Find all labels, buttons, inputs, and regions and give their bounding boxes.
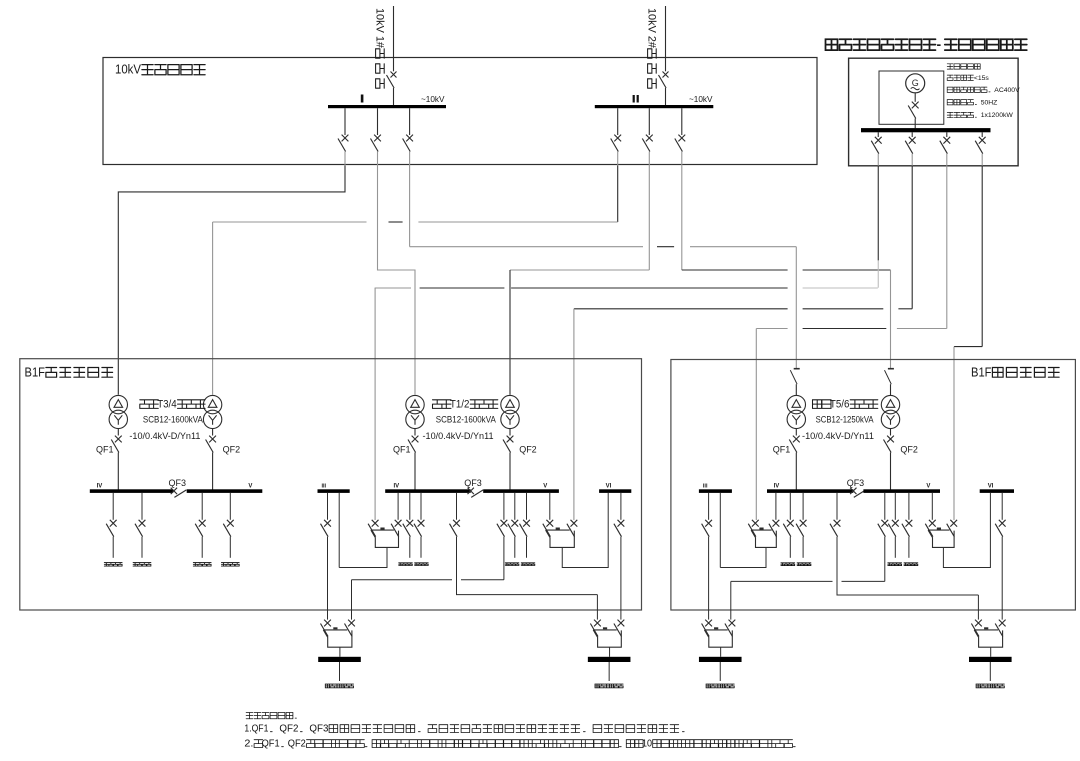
svg-text:III: III bbox=[322, 484, 327, 490]
svg-text:B1F: B1F bbox=[971, 365, 992, 379]
wire: T5/6 load feeder at x=895.3 bbox=[894, 493, 896, 520]
wire: busbar II feeder drop at x=617.7 bbox=[617, 108, 619, 135]
wire: generator feeder 1 vertical bbox=[877, 166, 879, 261]
wire: bus III feeder to fire ATS (left input) bbox=[327, 493, 329, 520]
wire: Crown left ATS output to bus III bbox=[339, 547, 387, 567]
wire: bus IV long feeder to right fire ATS bbox=[836, 493, 838, 520]
enclosure: generator cell bbox=[879, 71, 944, 124]
wire: T1/2 load feeder at x=514.8 bbox=[514, 493, 516, 520]
transformer T2 (Crown T1/2 right) bbox=[501, 395, 519, 413]
svg-text:10kV 1#: 10kV 1# bbox=[373, 8, 385, 49]
wire: bus V long feeder to left fire ATS bbox=[884, 493, 886, 520]
disconnect above T5 bbox=[794, 368, 800, 370]
transformer T6 (Zhixuan right) bbox=[881, 395, 899, 413]
wire: T3/4 load feeder at x=113.2 bbox=[112, 493, 114, 520]
enclosure: 10kV high-voltage distribution room bbox=[103, 58, 817, 165]
wire: T3 to QF1 breaker bbox=[117, 429, 119, 436]
busbar: fire load bus (Crown right) bbox=[588, 657, 631, 662]
ATS (fire load, Crown left) bbox=[324, 620, 331, 627]
svg-text:QF2: QF2 bbox=[519, 445, 537, 455]
busbar: generator 0.4kV bus bbox=[861, 128, 991, 132]
enclosure: B1F Crown substation bbox=[20, 359, 642, 610]
breaker on generator feeder bbox=[875, 137, 882, 144]
busbar: fire load bus (Crown left) bbox=[318, 657, 361, 662]
breaker on load feeder bbox=[199, 520, 206, 527]
wire: route into Crown T4 (QF2) bbox=[212, 222, 214, 395]
wire: bus IV feeder into ATS right input bbox=[775, 493, 777, 520]
wire: route into Zhixuan T5 (QF1) vertical bbox=[795, 247, 797, 369]
wire: busbar II feeder drop at x=681.8 bbox=[681, 108, 683, 135]
breaker on load feeder bbox=[800, 520, 807, 527]
svg-text:10kV 2#: 10kV 2# bbox=[645, 8, 657, 49]
breaker on bus VI feeder bbox=[618, 520, 625, 527]
svg-text:V: V bbox=[926, 484, 930, 490]
label: hotel fire load bbox=[595, 684, 623, 688]
svg-text:1x1200kW: 1x1200kW bbox=[981, 112, 1014, 119]
breaker on bus I feeder bbox=[342, 135, 349, 142]
wire: QF1 to bus IV mid bbox=[414, 453, 416, 490]
wire: generator breaker to bus bbox=[914, 119, 916, 129]
breaker on load feeder bbox=[139, 520, 146, 527]
label: hotel fire load bbox=[976, 684, 1004, 688]
wire: route into Zhixuan T6 (QF2) vertical bbox=[890, 270, 892, 369]
label: secondary loads pair (Zhixuan bus V) bbox=[888, 563, 902, 566]
wire: generator bus feeder at x=946.8 bbox=[946, 132, 948, 137]
busbar VI (Crown) bbox=[599, 489, 631, 493]
breaker on load feeder bbox=[906, 520, 913, 527]
wire: route bus I feeder 1 to Crown T3 (QF1) bbox=[118, 166, 345, 395]
wire: bus III riser from ATS output bbox=[719, 493, 721, 568]
label: hotel fire load bbox=[706, 684, 734, 688]
wire: route into Crown T2 (QF2) vertical bbox=[509, 270, 511, 395]
wire: T5/6 load feeder at x=803.1 bbox=[802, 493, 804, 520]
wire: T5/6 load feeder at x=908.9 bbox=[908, 493, 910, 520]
wire: Crown right ATS output to bus VI bbox=[562, 493, 608, 568]
wire: generator feeder 2 vertical bbox=[911, 166, 913, 309]
svg-text:T1/2: T1/2 bbox=[450, 399, 470, 411]
breaker on bus III feeder bbox=[324, 520, 331, 527]
breaker on load feeder bbox=[406, 520, 413, 527]
svg-text:AC400V: AC400V bbox=[994, 87, 1020, 94]
wire: T3/4 load feeder at x=202.2 bbox=[201, 493, 203, 520]
label: section II mark bbox=[633, 95, 635, 103]
breaker on load feeder bbox=[418, 520, 425, 527]
breaker QF2 (T4) bbox=[209, 436, 216, 443]
wire: generator feeder 1 horizontal y=288 to Crown left ATS bbox=[375, 287, 411, 289]
generator G1 symbol bbox=[906, 74, 925, 93]
svg-text:III: III bbox=[703, 484, 708, 490]
breaker QF2 (T2) bbox=[507, 436, 514, 443]
wire: generator bus feeder at x=878.25 bbox=[877, 132, 879, 137]
breaker QF1 (T3) bbox=[115, 436, 122, 443]
wire: T4 to QF2 breaker bbox=[212, 429, 214, 436]
breaker on load feeder bbox=[787, 520, 794, 527]
svg-text:10: 10 bbox=[642, 739, 652, 750]
svg-text:QF3: QF3 bbox=[847, 478, 865, 488]
svg-text:-: - bbox=[937, 36, 942, 52]
wire: QF1 to bus IV bbox=[795, 453, 797, 490]
label: generator data block bbox=[947, 64, 980, 69]
breaker on bus IV long feeder bbox=[453, 520, 460, 527]
breaker QF2 (T6) bbox=[887, 436, 894, 443]
svg-text:QF3: QF3 bbox=[309, 724, 328, 735]
label: secondary load bbox=[104, 563, 122, 567]
wire: generator feeder 3 horizontal y=328 to Zhixuan left ATS bbox=[756, 328, 787, 330]
svg-text:SCB12-1600kVA: SCB12-1600kVA bbox=[143, 414, 204, 425]
svg-text:QF2: QF2 bbox=[900, 445, 918, 455]
svg-text:T5/6: T5/6 bbox=[830, 399, 850, 411]
busbar I (10kV section I) bbox=[328, 105, 446, 108]
svg-text:V: V bbox=[543, 484, 547, 490]
wire: generator feeder 4 horizontal y=347 bbox=[954, 346, 982, 348]
wire: busbar I feeder drop at x=345 bbox=[344, 108, 346, 135]
wire: route bus I feeder 2 to Crown T1 (QF1) bbox=[378, 166, 416, 395]
label: secondary loads pair (bus IV mid) bbox=[399, 563, 413, 566]
busbar V (Crown T1/2 right section) bbox=[483, 489, 559, 493]
wire: T1/2 load feeder at x=421 bbox=[420, 493, 422, 520]
svg-text:QF3: QF3 bbox=[169, 478, 187, 488]
wire: bus V feeder into right ATS left input bbox=[549, 493, 551, 520]
wire: route bus II feeder 3 vertical bbox=[681, 166, 683, 271]
ATS (fire load, Crown right) bbox=[594, 620, 601, 627]
breaker on bus II feeder bbox=[614, 135, 621, 142]
bus tie QF3 (T3/4) bbox=[171, 488, 177, 494]
wire: bus IV feeder into ATS right input bbox=[397, 493, 399, 520]
wire: bus VI feeder to right fire ATS bbox=[620, 493, 622, 520]
enclosure: diesel generator box bbox=[849, 58, 1019, 166]
svg-text:QF1: QF1 bbox=[96, 445, 114, 455]
breaker on generator feeder bbox=[979, 137, 986, 144]
label: secondary load bbox=[133, 563, 151, 567]
wire: incoming feeder line 1 bbox=[393, 6, 395, 71]
breaker on bus V long feeder bbox=[881, 520, 888, 527]
busbar IV (Crown T1/2 left section) bbox=[385, 489, 471, 493]
ATS (Crown right, feeds bus VI) bbox=[546, 520, 553, 527]
svg-text:50HZ: 50HZ bbox=[981, 99, 998, 106]
ATS (Crown left, feeds bus III) bbox=[372, 520, 379, 527]
wire: Zhixuan right ATS output to bus VI bbox=[943, 493, 990, 568]
busbar II (10kV section II) bbox=[595, 105, 714, 108]
busbar: fire load bus (Zhixuan left) bbox=[699, 657, 742, 662]
svg-text:QF1: QF1 bbox=[773, 445, 791, 455]
wire: standby feed into Zhixuan right ATS bbox=[953, 347, 955, 520]
breaker on bus VI feeder bbox=[999, 520, 1006, 527]
breaker QF1 (T5) bbox=[793, 436, 800, 443]
wire: QF2 to bus V mid bbox=[509, 453, 511, 490]
svg-text:VI: VI bbox=[606, 484, 612, 490]
breaker on bus II feeder bbox=[678, 135, 685, 142]
wire: bus III riser from ATS output bbox=[338, 493, 340, 568]
wire: Zhixuan left ATS output to bus III bbox=[720, 547, 766, 567]
wire: bus V long feeder to left fire ATS bbox=[503, 493, 505, 520]
wire: incoming feeder line 2 bbox=[665, 6, 667, 71]
wire: generator feeder 2 horizontal y=309 to Crown right ATS bbox=[574, 308, 788, 310]
transformer T4 (Crown T3/4 right) bbox=[203, 395, 221, 413]
breaker on load feeder bbox=[523, 520, 530, 527]
wire: fire bus outgoing bbox=[608, 662, 610, 681]
wire: standby feed into Crown right ATS bbox=[573, 309, 575, 520]
bus tie QF3 (T1/2) bbox=[468, 488, 474, 494]
busbar IV (Zhixuan left section) bbox=[767, 489, 853, 493]
wire: disconnect to T5 bbox=[795, 384, 797, 395]
wire: bus III feeder to fire ATS (left input) bbox=[708, 493, 710, 520]
svg-text:T3/4: T3/4 bbox=[157, 399, 177, 411]
label: 10kV 1# main incoming (vertical) bbox=[373, 8, 385, 88]
wire: route bus I feeder 3 horizontal y=247 to Zhixuan T5 bbox=[410, 246, 643, 248]
wire: route bus II feeder 3 horizontal y=270 to Zhixuan T6 bbox=[682, 269, 788, 271]
wire: bus V feeder into right ATS left input bbox=[931, 493, 933, 520]
breaker on load feeder bbox=[110, 520, 117, 527]
wire: busbar I feeder drop at x=409.6 bbox=[409, 108, 411, 135]
svg-text:QF2: QF2 bbox=[223, 445, 241, 455]
wire: standby feed into Zhixuan left ATS bbox=[755, 329, 757, 521]
wire: fire bus outgoing bbox=[719, 662, 721, 681]
wire: bus VI feeder to right fire ATS bbox=[1001, 493, 1003, 520]
wire: T1/2 load feeder at x=409.8 bbox=[409, 493, 411, 520]
wire: bus IV long feeder to right fire ATS bbox=[456, 493, 458, 520]
wire: fire bus outgoing bbox=[989, 662, 991, 681]
svg-text:10kV: 10kV bbox=[115, 62, 141, 77]
label: operating logic notes header bbox=[246, 713, 296, 719]
wire: route bus II feeder 1 horizontal y=222 bbox=[213, 221, 367, 223]
breaker on generator feeder bbox=[909, 137, 916, 144]
breaker on incoming line 1 bbox=[391, 72, 397, 78]
wire: busbar II feeder drop at x=649.3 bbox=[648, 108, 650, 135]
wire: generator bus feeder at x=982.2 bbox=[981, 132, 983, 137]
label: secondary load bbox=[221, 563, 239, 567]
breaker on incoming line 2 bbox=[663, 72, 669, 78]
wire: disconnect to T6 bbox=[890, 384, 892, 395]
ATS (fire load, Zhixuan left) bbox=[705, 620, 712, 627]
breaker on generator feeder bbox=[943, 137, 950, 144]
wire: T1/2 load feeder at x=526.5 bbox=[526, 493, 528, 520]
busbar III (Zhixuan) bbox=[699, 489, 732, 493]
wire: QF2 to bus V bbox=[212, 453, 214, 490]
label: hotel fire load bbox=[325, 684, 353, 688]
breaker on bus II feeder bbox=[646, 135, 653, 142]
svg-text:G: G bbox=[912, 78, 919, 88]
label: 10kV 2# main incoming (vertical) bbox=[645, 8, 657, 88]
label: secondary loads pair (bus V mid) bbox=[505, 563, 519, 566]
wire: T5/6 load feeder at x=790.3 bbox=[789, 493, 791, 520]
svg-text:2.: 2. bbox=[244, 739, 253, 750]
svg-text:SCB12-1250kVA: SCB12-1250kVA bbox=[816, 414, 875, 425]
enclosure: B1F Zhixuan substation bbox=[671, 360, 1076, 611]
wire: route bus II feeder 1 to Crown T4 (QF2) vertical bbox=[617, 166, 619, 223]
label: secondary loads pair (Zhixuan bus IV) bbox=[781, 563, 795, 566]
svg-text:QF1: QF1 bbox=[262, 739, 280, 750]
wire: incoming 1 to busbar I bbox=[393, 88, 395, 106]
svg-text:IV: IV bbox=[774, 484, 780, 490]
busbar IV (Crown T3/4 left section) bbox=[90, 489, 173, 493]
label: section I mark bbox=[361, 95, 364, 103]
ATS (Zhixuan left, feeds bus III) bbox=[752, 520, 759, 527]
wire: generator feeder 3 vertical bbox=[946, 166, 948, 329]
busbar III (Crown) bbox=[318, 489, 350, 493]
busbar: fire load bus (Zhixuan right) bbox=[969, 657, 1012, 662]
transformer T3 (Crown T3/4 left) bbox=[109, 395, 127, 413]
svg-text:IV: IV bbox=[97, 484, 103, 490]
wire: T3/4 load feeder at x=142 bbox=[141, 493, 143, 520]
breaker on generator output bbox=[912, 102, 919, 109]
wire: incoming 2 to busbar II bbox=[665, 88, 667, 106]
label: secondary load bbox=[193, 563, 211, 567]
svg-text:V: V bbox=[248, 484, 252, 490]
svg-text:1.QF1: 1.QF1 bbox=[244, 724, 268, 735]
svg-text:-10/0.4kV-D/Yn11: -10/0.4kV-D/Yn11 bbox=[423, 431, 494, 442]
wire: route bus I feeder 3 vertical bbox=[409, 166, 411, 247]
svg-text:QF1: QF1 bbox=[393, 445, 411, 455]
breaker on load feeder bbox=[511, 520, 518, 527]
svg-text:B1F: B1F bbox=[25, 365, 46, 379]
breaker on load feeder bbox=[227, 520, 234, 527]
svg-text:IV: IV bbox=[394, 484, 400, 490]
wire: T3/4 load feeder at x=230.3 bbox=[229, 493, 231, 520]
breaker on bus V long feeder bbox=[501, 520, 508, 527]
svg-text:<15s: <15s bbox=[974, 75, 990, 82]
bus tie QF3 (T5/6) bbox=[850, 488, 856, 494]
svg-text:QF3: QF3 bbox=[464, 478, 482, 488]
breaker on bus IV long feeder bbox=[834, 520, 841, 527]
breaker QF1 (T1) bbox=[412, 436, 419, 443]
busbar VI (Zhixuan) bbox=[980, 489, 1014, 493]
svg-text:SCB12-1600kVA: SCB12-1600kVA bbox=[436, 414, 497, 425]
svg-text:VI: VI bbox=[988, 484, 994, 490]
ATS (fire load, Zhixuan right) bbox=[975, 620, 982, 627]
wire: route bus II feeder 2 to Crown T2 (QF2) bbox=[648, 166, 650, 271]
ATS (Zhixuan right, feeds bus VI) bbox=[929, 520, 936, 527]
busbar V (Crown T3/4 right section) bbox=[187, 489, 263, 493]
wire: standby feed into Crown left ATS bbox=[374, 288, 376, 520]
wire: generator output bbox=[914, 93, 916, 102]
breaker on bus I feeder bbox=[406, 135, 413, 142]
svg-text:QF2: QF2 bbox=[279, 724, 298, 735]
wire: generator bus feeder at x=912.2 bbox=[911, 132, 913, 137]
svg-text:~10kV: ~10kV bbox=[421, 95, 445, 104]
breaker on bus I feeder bbox=[374, 135, 381, 142]
svg-text:-10/0.4kV-D/Yn11: -10/0.4kV-D/Yn11 bbox=[802, 431, 874, 442]
transformer T5 (Zhixuan left) bbox=[787, 395, 805, 413]
busbar V (Zhixuan right section) bbox=[863, 489, 940, 493]
wire: QF1 to bus IV bbox=[117, 453, 119, 490]
wire: fire bus outgoing bbox=[339, 662, 341, 681]
breaker on load feeder bbox=[892, 520, 899, 527]
wire: QF2 to bus V bbox=[890, 453, 892, 490]
breaker on bus III feeder bbox=[705, 520, 712, 527]
transformer T1 (Crown T1/2 left) bbox=[406, 395, 424, 413]
wire: busbar I feeder drop at x=377.5 bbox=[377, 108, 379, 135]
svg-text:-10/0.4kV-D/Yn11: -10/0.4kV-D/Yn11 bbox=[129, 431, 200, 442]
disconnect above T6 bbox=[888, 368, 894, 370]
svg-text:QF2: QF2 bbox=[288, 739, 306, 750]
svg-text:~10kV: ~10kV bbox=[689, 95, 713, 104]
wire: generator feeder 4 vertical bbox=[981, 166, 983, 347]
